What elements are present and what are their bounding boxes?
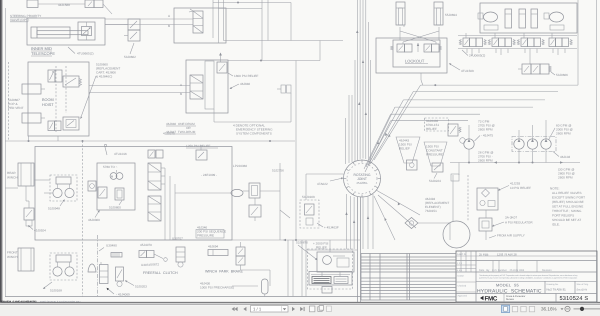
fan wire 1 (374, 85, 578, 160)
svg-text:HOIST: HOIST (42, 103, 54, 107)
zoom slider handle (580, 307, 584, 311)
svg-text:1 2 3: 1 2 3 (457, 262, 463, 265)
svg-text:46J0360: 46J0360 (88, 218, 100, 222)
wire bus under boom hoist (5, 140, 295, 142)
svg-text:PRESSURE: PRESSURE (197, 234, 214, 238)
svg-text:53J0203: 53J0203 (135, 285, 147, 289)
svg-text:LOCKOUT: LOCKOUT (405, 59, 425, 64)
svg-text:25 FEB: 25 FEB (479, 252, 488, 256)
svg-text:5780 TO ~: 5780 TO ~ (103, 165, 118, 169)
parts list table (361, 254, 456, 301)
svg-text:EXCEPT SWING PORT: EXCEPT SWING PORT (552, 196, 585, 200)
label 53J0224 (429, 163, 443, 183)
label U30480 (99, 244, 117, 252)
lockout enclosure (376, 38, 447, 73)
title block left stacked cells (456, 275, 476, 298)
svg-text:PORT RELIEFS: PORT RELIEFS (552, 214, 574, 218)
label 53J0660 replacement cart (80, 63, 120, 120)
view mode icon 2 (512, 306, 517, 311)
front winch drum (18, 248, 34, 271)
port rect HOP (22, 84, 41, 94)
svg-text:LP220366: LP220366 (233, 164, 247, 168)
svg-text:46J103: 46J103 (560, 155, 570, 159)
svg-text:Division: Division (506, 298, 515, 301)
right page border line (596, 0, 598, 302)
toolbar copy icon (318, 306, 324, 312)
zoom slider track (574, 308, 600, 310)
nav first-page button (232, 307, 238, 311)
crossed hoses (400, 25, 439, 42)
svg-text:53J0948: 53J0948 (48, 207, 60, 211)
steering valve enclosure (174, 8, 226, 43)
swing brake valve 53J0666 (518, 64, 551, 74)
svg-text:SHOULD BE SET AT: SHOULD BE SET AT (552, 218, 581, 222)
label rear winch (7, 171, 17, 180)
bank valve 4 (549, 38, 572, 47)
hose bundle verticals (346, 0, 371, 164)
label boom hoist (42, 98, 54, 107)
svg-text:FROM AIR SUPPLY: FROM AIR SUPPLY (497, 234, 525, 238)
steering priority valve (opt) (27, 0, 112, 14)
fan wire 5 (364, 114, 480, 169)
svg-text:78J0151: 78J0151 (425, 209, 437, 213)
outrigger cylinder right (434, 2, 443, 25)
label 53J0203 (125, 280, 147, 288)
svg-text:No2 79 A56-31: No2 79 A56-31 (547, 288, 567, 292)
tank section borders (302, 240, 306, 297)
wires cylinders to lockout (400, 31, 439, 44)
wire joint west (306, 173, 344, 175)
svg-text:2600 RPM: 2600 RPM (556, 132, 571, 136)
svg-text:A B C D: A B C D (457, 253, 466, 256)
note text block (550, 187, 585, 227)
svg-text:VALVE (OPT.): VALVE (OPT.) (10, 18, 29, 22)
wire B lower (89, 92, 190, 94)
svg-text:& 45J846C): & 45J846C) (96, 75, 112, 79)
svg-text:Size of Orig.: Size of Orig. (577, 283, 589, 286)
label 41J293 10 psi relief (498, 182, 531, 191)
boom hoist valve 2 (63, 76, 82, 87)
label 46J494 replacement element (425, 197, 449, 213)
air tank dome (443, 221, 470, 248)
svg-text:1000 PSI PRECHARGE): 1000 PSI PRECHARGE) (200, 286, 234, 290)
tank port small (111, 253, 122, 258)
svg-text:Drawing No.: Drawing No. (547, 283, 559, 286)
rotating joint (343, 160, 380, 198)
funnel callout 1500 psi constant pressure (424, 142, 447, 166)
svg-text:MODEL 55: MODEL 55 (496, 282, 519, 287)
nav last-page button (300, 307, 304, 311)
bank valve 1 (459, 38, 486, 47)
fan wire 2 (371, 91, 558, 163)
view mode icon single (active) (502, 305, 510, 312)
holding valve (78, 22, 95, 40)
center cylinders pair 1 (505, 9, 512, 28)
label 53J0666 (551, 72, 568, 77)
label 53J0948 (48, 199, 65, 210)
svg-text:4TU0665(2): 4TU0665(2) (77, 52, 94, 56)
svg-text:SET AT FULL ENGINE: SET AT FULL ENGINE (552, 205, 583, 209)
accumulator (262, 279, 269, 297)
funnel callout 46J443 1500 psi relief (396, 137, 420, 163)
label 46J346 200 psi sequence (196, 226, 226, 239)
suction bus (450, 161, 580, 163)
relief valve cartridge (217, 53, 227, 74)
svg-text:53J0666: 53J0666 (556, 73, 568, 77)
riser left of bus (213, 109, 215, 122)
joint exit diagonals lower right (374, 190, 420, 240)
label 45J403F (317, 223, 339, 230)
svg-text:4TU1509: 4TU1509 (461, 69, 474, 73)
top bus wires (213, 0, 343, 61)
park brake valve (236, 242, 245, 270)
long riser to winch section (295, 61, 297, 241)
svg-text:U30480: U30480 (106, 244, 117, 248)
svg-text:53J0168: 53J0168 (50, 289, 62, 293)
relief small (249, 205, 261, 221)
svg-text:PED VENT: PED VENT (8, 106, 24, 110)
label 73 gpm (478, 120, 495, 132)
svg-text:41J293: 41J293 (510, 182, 520, 186)
hydraulic tank (309, 272, 352, 286)
pump drops (519, 120, 546, 163)
manifold valve c (115, 188, 124, 200)
svg-text:B: B (180, 92, 182, 96)
label one drum / two drum (166, 122, 196, 134)
manifold valve a (88, 181, 96, 191)
svg-text:46J846 ONE DRUM: 46J846 ONE DRUM (166, 122, 195, 126)
inner dashed guides (55, 66, 57, 132)
svg-text:4 5 6: 4 5 6 (457, 269, 463, 272)
vertical risers right of spool (213, 0, 224, 43)
FMC logo (480, 294, 526, 303)
label 46J103 (553, 152, 570, 160)
zoom out button (565, 306, 570, 311)
spool feed risers (165, 168, 175, 240)
main pump 45J475 (464, 125, 474, 163)
drawing number 5310524 S (556, 294, 588, 303)
pilot valve 53J0662 (124, 19, 140, 41)
wire A lower (89, 85, 190, 87)
svg-text:1293 79 A56 28: 1293 79 A56 28 (497, 252, 517, 256)
svg-text:- 45J4069: - 45J4069 (116, 293, 130, 297)
svg-text:+ 45J403F: + 45J403F (324, 226, 339, 230)
page number combobox 1/1 (251, 306, 289, 312)
svg-text:53 J0169: 53 J0169 (302, 195, 315, 199)
riser pair center (288, 240, 293, 297)
label 46J436 precharge (200, 282, 258, 290)
label 45J475 (475, 134, 494, 142)
svg-text:1800 PSI RELIEF: 1800 PSI RELIEF (234, 74, 259, 78)
svg-text:FRONT: FRONT (7, 251, 18, 255)
rear winch motor pair (50, 175, 77, 201)
svg-text:36.16%: 36.16% (541, 307, 557, 312)
inner mid telescope enclosure (27, 18, 105, 45)
tank drain box (322, 287, 332, 294)
lockout valve right (424, 44, 442, 52)
label 24U0665(2) (462, 50, 485, 58)
check valve diamond (405, 218, 450, 229)
title MODEL 55 HYDRAULIC SCHEMATIC (477, 281, 589, 294)
svg-text:HYDRAULIC SCHEMATIC: HYDRAULIC SCHEMATIC (477, 288, 542, 294)
drawing left frame line (5, 8, 7, 297)
svg-text:REAR: REAR (7, 171, 16, 175)
svg-text:1250 PSI RELIEF: 1250 PSI RELIEF (186, 144, 211, 148)
svg-text:U3072: U3072 (141, 263, 150, 267)
svg-text:Date By C.O. Number 25: Date By C.O. Number 25 JUN 1993 (479, 269, 525, 272)
joint exit arrows bottom (345, 212, 369, 223)
bank valve 3 (517, 38, 544, 47)
svg-text:Approved: Approved (458, 295, 468, 298)
port ticks (168, 14, 171, 28)
title block legal fine print (478, 274, 578, 282)
svg-text:ALL RELIEF VALVES: ALL RELIEF VALVES (552, 191, 582, 195)
svg-text:45J0924: 45J0924 (34, 229, 46, 233)
steering spool (189, 9, 203, 33)
scan left black edge (0, 0, 2, 302)
svg-text:45J0375: 45J0375 (163, 132, 175, 136)
spool lower (148, 196, 161, 221)
front winch brake valve group (88, 262, 108, 284)
svg-text:Sect29 N: Sect29 N (577, 289, 588, 292)
tank section top rail (306, 249, 357, 251)
manifold valve b (98, 187, 107, 198)
svg-text:(RELIEF) SHOULD BE: (RELIEF) SHOULD BE (552, 200, 584, 204)
port rect PED (22, 113, 41, 123)
svg-text:A PSI REGULATOR: A PSI REGULATOR (505, 221, 533, 225)
label 24E1009 (201, 173, 217, 177)
svg-text:BOOM: BOOM (42, 98, 54, 102)
wire telescope to pilot (105, 24, 124, 26)
label 53J0800 (109, 201, 122, 210)
motor group right ellipse (544, 12, 564, 30)
rear winch drum (18, 163, 34, 186)
svg-text:- 24E1009 -: - 24E1009 - (201, 173, 217, 177)
wire lower bus (214, 121, 291, 123)
label 45J0924 (28, 225, 46, 233)
counterbalance cwm symbol (110, 170, 123, 179)
svg-text:PRESSURE: PRESSURE (426, 153, 443, 157)
right trunk riser (577, 0, 579, 85)
svg-text:TELESCOPE: TELESCOPE (31, 51, 55, 56)
svg-text:B: B (168, 24, 170, 28)
boom hoist enclosure (28, 62, 89, 136)
svg-text:45J4070: 45J4070 (140, 243, 152, 247)
port labels AB lower (180, 83, 183, 96)
svg-text:IDLE.: IDLE. (552, 223, 560, 227)
view mode icon 3 (521, 306, 526, 311)
svg-text:3A-3K07: 3A-3K07 (505, 216, 517, 220)
outrigger cylinder left (396, 2, 405, 25)
svg-text:4TU1016: 4TU1016 (114, 152, 127, 156)
misc right wires (450, 163, 459, 241)
rear winch brake valve (24, 201, 34, 226)
boom hoist valve 4 (63, 117, 79, 130)
unloader valve (407, 160, 418, 170)
svg-text:WINCH: WINCH (7, 255, 17, 259)
air filter assembly (477, 188, 498, 210)
return filter box (317, 252, 354, 272)
telescope cylinder (31, 27, 88, 38)
svg-text:46J694: 46J694 (208, 245, 218, 249)
svg-text:RELIEF: RELIEF (316, 246, 327, 250)
svg-text:RELIEF: RELIEF (426, 127, 437, 131)
toolbar doc icon faint (327, 306, 332, 312)
wire box drops (29, 89, 59, 141)
svg-text:1 / 1: 1 / 1 (253, 306, 262, 311)
svg-text:Checked: Checked (458, 285, 467, 288)
svg-text:53J0224: 53J0224 (429, 179, 441, 183)
pilot manifold 53J0169 (300, 195, 319, 228)
label 47A022 (317, 177, 344, 186)
relief cartridge (448, 124, 465, 143)
fan wire 6 (365, 121, 468, 172)
front aux valve (116, 267, 124, 287)
svg-text:FMC: FMC (485, 295, 498, 302)
label inner mid telescope (31, 46, 55, 56)
svg-text:RELIEF: RELIEF (399, 147, 410, 151)
bank valve 2 (488, 38, 515, 47)
bank drops to motors (466, 33, 565, 64)
title block outer frame (456, 251, 597, 302)
dashed air line (467, 175, 469, 221)
svg-text:U0672: U0672 (150, 263, 159, 267)
wire B to spool (105, 24, 193, 26)
svg-text:44J1588: 44J1588 (58, 3, 70, 7)
dashed frame top-left (8, 62, 10, 141)
boom hoist valve 3 (48, 121, 61, 131)
label 46J846 callout (230, 82, 251, 89)
svg-text:2600 RPM: 2600 RPM (478, 128, 493, 132)
lockout valve block (393, 40, 440, 67)
steering spool lower (190, 75, 203, 99)
hose bundle arrows (356, 30, 367, 115)
sequence valve (243, 183, 260, 198)
boom hoist valve 1 (48, 70, 62, 82)
svg-text:10 PSI RELIEF: 10 PSI RELIEF (510, 186, 531, 190)
label 53J0168 (43, 282, 62, 293)
wires sequence (255, 163, 290, 240)
label 46J0360 (88, 210, 100, 222)
toolbar snapshot icon (310, 306, 315, 312)
valve block above spools (148, 150, 163, 158)
freefall pilot valve (139, 251, 167, 262)
zoom dropdown arrow (561, 308, 564, 310)
riser from check valves (290, 93, 292, 122)
triple pump 46J103 (512, 137, 556, 152)
wire drum to valves (5, 180, 53, 201)
revision table entries (479, 252, 552, 272)
label 1250 psi relief (186, 144, 218, 148)
label 4TU1016 (104, 144, 127, 156)
freefall vertical valve (176, 247, 185, 267)
valve bank rail (458, 36, 577, 49)
svg-text:46J846: 46J846 (240, 82, 250, 86)
brake cylinder (208, 245, 228, 256)
svg-text:55J0694: 55J0694 (445, 13, 457, 17)
svg-text:Revision: Revision (542, 269, 552, 272)
dash-dot divider (97, 235, 99, 297)
label lockout (405, 59, 428, 64)
label front winch (7, 251, 18, 260)
tank feed riser (329, 240, 331, 252)
motor ellipse (175, 189, 243, 196)
label 3A-3K07 regulator (492, 216, 534, 227)
label 60 gpm (549, 124, 573, 140)
joint exit wires bottom (347, 194, 374, 249)
svg-text:part thereof in any manner not: part thereof in any manner not expressly… (479, 277, 577, 280)
relief 3AJ0482 (425, 118, 449, 131)
label steering priority valve (opt) (10, 14, 41, 22)
corner dot (434, 84, 436, 86)
svg-text:2600 RPM: 2600 RPM (558, 176, 573, 180)
svg-text:FREEFALL CLUTCH: FREEFALL CLUTCH (143, 271, 178, 275)
pilot relief valve (196, 145, 207, 160)
lockout valve left (391, 44, 413, 52)
svg-text:WINCH: WINCH (7, 176, 17, 180)
label 28 gpm (478, 151, 493, 163)
label 53J0667 hop & ped vent (8, 98, 24, 110)
relief manifold enclosure (186, 60, 228, 113)
winch section enclosure (35, 147, 232, 241)
note optional emergency steering (233, 124, 273, 136)
fan wire 4 (366, 107, 533, 167)
dashed divider left (82, 141, 84, 297)
front winch motor pair (50, 253, 77, 280)
spool upper (148, 163, 165, 190)
svg-text:Crane & Excavator: Crane & Excavator (506, 295, 526, 298)
svg-text:NOTE:: NOTE: (550, 187, 560, 191)
view mode icon 4 (529, 306, 534, 311)
air regulator (479, 210, 492, 240)
label from air supply (489, 234, 525, 239)
svg-text:SYSTEM COMPONENTS: SYSTEM COMPONENTS (236, 132, 272, 136)
label 30 gpm 2800 psi (558, 168, 575, 180)
svg-text:53J0800: 53J0800 (109, 206, 121, 210)
svg-text:WINCH PARK BRAKE: WINCH PARK BRAKE (205, 270, 243, 274)
manifold enclosure (480, 3, 577, 33)
svg-text:24U0665(2): 24U0665(2) (469, 54, 485, 58)
svg-text:53J2756: 53J2756 (272, 169, 284, 173)
wire A to spool (105, 18, 193, 20)
nav prev-page button (243, 307, 246, 311)
svg-text:45J205L: 45J205L (356, 181, 368, 185)
motor group left ellipse (478, 12, 498, 30)
svg-text:This drawing is the property o: This drawing is the property of FMC Corp… (479, 274, 578, 277)
svg-text:2600 RPM: 2600 RPM (478, 159, 493, 163)
label 4TU1509 (449, 63, 474, 73)
svg-text:Drawn: Drawn (458, 275, 465, 278)
viewer toolbar (0, 302, 600, 316)
tank enclosure dashed (308, 249, 353, 289)
fan wire 3 (368, 100, 545, 165)
drawing section divider double line (358, 197, 361, 302)
svg-text:5310524 S: 5310524 S (560, 296, 589, 302)
emergency steering check valves (277, 85, 291, 93)
wire lockout drop (421, 73, 423, 85)
center cylinders pair 2 (519, 9, 526, 28)
svg-text:- 45J475: - 45J475 (481, 134, 493, 138)
inner cartridge column (205, 61, 214, 109)
bottom rail wires (150, 239, 360, 286)
center pilot stem (417, 43, 419, 52)
drawing bottom border (5, 296, 361, 298)
nav next-page button (292, 307, 295, 311)
cwm manifold box (97, 163, 135, 210)
svg-text:THROTTLE ; SWING: THROTTLE ; SWING (552, 209, 582, 213)
label 45J4069 (107, 288, 131, 297)
wire top corner (228, 41, 320, 62)
